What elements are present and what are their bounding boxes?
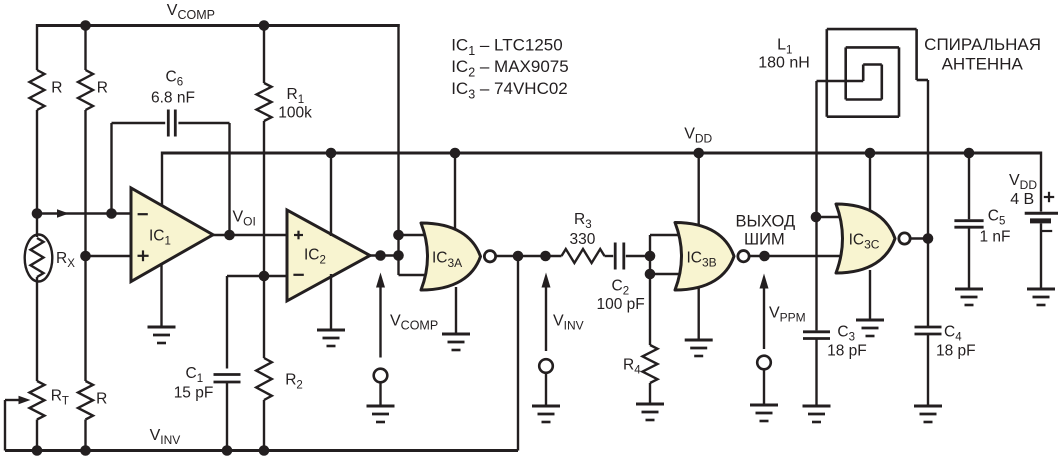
battery minus sign — [1042, 230, 1052, 232]
wire second column top — [84, 24, 86, 70]
node V_INV test tap — [540, 251, 551, 262]
svg-text:ВЫХОД: ВЫХОД — [735, 213, 795, 231]
test point V_INV — [532, 273, 560, 423]
ground IC2 — [317, 274, 345, 346]
potentiometer RT — [30, 381, 69, 420]
resistor R (second column) — [78, 70, 108, 110]
wire RT wiper feedback — [5, 396, 31, 451]
resistor R4 — [623, 274, 658, 404]
label antenna line1 — [924, 35, 1041, 54]
ground battery — [1027, 289, 1055, 305]
wire left column top — [36, 24, 38, 70]
node antenna feed — [923, 233, 934, 244]
resistor R (second column bottom) — [78, 381, 107, 420]
capacitor C2 — [597, 243, 652, 314]
svg-text:R: R — [96, 391, 107, 408]
svg-text:R: R — [51, 79, 62, 96]
label L1 value — [758, 54, 810, 71]
node VOI — [224, 230, 235, 241]
ground IC3C — [856, 270, 884, 336]
nor-gate IC3A — [421, 223, 481, 290]
ground C5 — [955, 289, 983, 305]
photoresistor RX — [25, 235, 76, 282]
wire second column middle — [84, 110, 86, 381]
capacitor C5 — [954, 152, 1010, 290]
resistor R1 — [257, 24, 313, 276]
IC2 minus sign — [293, 274, 303, 276]
wire IC1 inverting input — [37, 209, 132, 217]
wire left column lower — [36, 277, 38, 381]
svg-text:1 nF: 1 nF — [980, 228, 1011, 245]
node C1 bottom — [222, 445, 233, 456]
capacitor C1 — [174, 276, 241, 451]
wire IC3A supply — [454, 152, 456, 231]
label V_COMP rail — [167, 2, 215, 22]
capacitor C3 — [803, 323, 867, 406]
wire IC3B output PWM — [750, 255, 846, 257]
label PWM output line1 — [735, 213, 795, 231]
nor-gate IC3B — [675, 223, 734, 291]
svg-text:100 pF: 100 pF — [597, 296, 645, 313]
wire IC3B input tie — [650, 235, 686, 274]
node inverting node — [259, 271, 270, 282]
wire IC1 noninverting input — [86, 255, 132, 257]
node noninverting input junction — [80, 251, 91, 262]
node R1 top — [259, 20, 270, 31]
wire left column mid — [36, 110, 38, 237]
node IC3C supply tap — [865, 148, 876, 159]
wire IC3C output — [911, 237, 928, 239]
ground R4 — [636, 404, 664, 420]
node IC2 output — [375, 250, 386, 261]
capacitor C4 — [915, 323, 976, 406]
wire R to bottom rail — [84, 420, 86, 451]
node IC3C top input — [811, 212, 822, 223]
node left column junction — [32, 208, 43, 219]
svg-text:330: 330 — [570, 231, 596, 248]
test point V_PPM — [750, 274, 778, 422]
node C5 tap — [964, 148, 975, 159]
wire IC3B supply — [698, 152, 700, 227]
label VDD rail — [684, 125, 712, 145]
label parts list line1 — [451, 36, 563, 59]
test point V_COMP — [367, 273, 395, 423]
label parts list line3 — [451, 79, 568, 102]
IC2 plus sign — [294, 231, 303, 240]
node second column top — [80, 20, 91, 31]
wire V_COMP feedback drop — [399, 24, 433, 275]
IC3C output bubble — [899, 233, 910, 244]
wire feedback to V_INV rail — [517, 256, 519, 451]
ground IC3B — [685, 287, 713, 356]
node IC3A supply tap — [450, 148, 461, 159]
label battery VDD — [1009, 172, 1037, 192]
label antenna line2 — [942, 54, 1024, 73]
wire IC3C supply — [869, 152, 871, 211]
ground C4 — [914, 406, 942, 422]
node IC2 supply tap — [326, 148, 337, 159]
node IC3A output junction — [513, 251, 524, 262]
label V_INV rail — [150, 427, 181, 447]
node R2 bottom — [259, 445, 270, 456]
svg-text:180 nH: 180 nH — [758, 54, 810, 71]
wire V_COMP top rail — [37, 24, 400, 27]
label PWM output line2 — [744, 230, 785, 248]
wire IC3A output — [497, 255, 562, 257]
wire IC1 output VOI — [213, 234, 287, 236]
svg-text:ШИМ: ШИМ — [744, 230, 785, 248]
IC3B output bubble — [738, 251, 749, 262]
wire antenna right leg — [927, 80, 929, 326]
node C2 output — [645, 251, 656, 262]
IC3A output bubble — [484, 251, 495, 262]
wire RT to bottom rail — [36, 420, 38, 451]
svg-text:100k: 100k — [278, 104, 312, 121]
IC1 minus sign — [138, 213, 148, 215]
node IC3A input tie upper — [393, 230, 404, 241]
label V_COMP test point — [390, 312, 438, 332]
capacitor C6 — [112, 69, 230, 236]
svg-text:18 pF: 18 pF — [936, 343, 976, 360]
label battery voltage — [1010, 191, 1034, 208]
op-amp IC2 — [287, 210, 370, 301]
wire IC1 supply — [161, 152, 163, 208]
label V_INV test point — [553, 312, 584, 332]
svg-text:15 pF: 15 pF — [174, 384, 214, 401]
node R bottom — [80, 445, 91, 456]
wire IC3C top input — [816, 216, 846, 218]
node IC3B supply tap — [693, 148, 704, 159]
node V_PPM tap — [759, 251, 770, 262]
svg-text:6.8 nF: 6.8 nF — [151, 90, 195, 107]
label L1 — [777, 36, 792, 56]
resistor R2 — [256, 276, 303, 451]
ground IC1 — [148, 263, 176, 343]
svg-text:4 В: 4 В — [1010, 191, 1034, 208]
battery VDD 4V — [1025, 152, 1058, 290]
ground C3 — [803, 406, 831, 422]
resistor R3 — [562, 211, 605, 263]
svg-text:СПИРАЛЬНАЯ: СПИРАЛЬНАЯ — [924, 35, 1041, 54]
op-amp IC1 — [131, 188, 213, 282]
wire VDD rail — [162, 152, 1041, 155]
label VOI — [233, 209, 256, 229]
nor-gate IC3C — [836, 204, 895, 273]
wire IC2 output to node — [370, 254, 400, 256]
wire IC2 supply — [330, 152, 332, 237]
node IC3A input tie lower — [393, 250, 404, 261]
wire antenna left leg — [815, 81, 817, 330]
inductor L1 spiral antenna — [817, 29, 929, 117]
label V_PPM test point — [769, 304, 806, 324]
IC1 plus sign — [138, 250, 149, 261]
node C6 left junction — [106, 208, 117, 219]
resistor R (left column) — [30, 70, 63, 110]
wire IC2 inverting input — [227, 275, 287, 277]
svg-text:АНТЕННА: АНТЕННА — [942, 54, 1024, 73]
wire V_INV bottom rail — [5, 449, 518, 452]
battery plus sign — [1044, 192, 1054, 202]
label parts list line2 — [451, 57, 569, 80]
svg-text:R: R — [97, 79, 108, 96]
svg-text:18 pF: 18 pF — [827, 343, 867, 360]
node R4 tap — [645, 269, 656, 280]
node RT bottom — [32, 445, 43, 456]
ground IC3A — [442, 287, 470, 350]
